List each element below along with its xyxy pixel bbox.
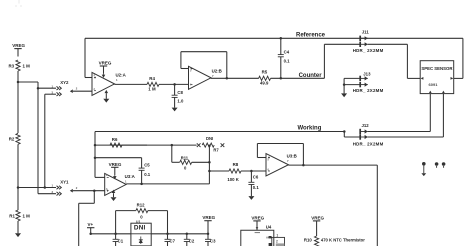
wire	[122, 144, 197, 146]
power VREG (R3 top)	[12, 43, 25, 56]
resistor R5	[259, 70, 271, 86]
op-amp U2:A	[92, 72, 127, 95]
wire	[211, 77, 259, 79]
svg-text:U4: U4	[266, 225, 272, 230]
wire U2:B feedback	[181, 52, 227, 79]
svg-text:U3:A: U3:A	[125, 174, 136, 179]
wire	[159, 83, 189, 85]
svg-text:XY2: XY2	[60, 80, 69, 85]
capacitor C1	[113, 234, 124, 246]
svg-text:R5: R5	[262, 70, 268, 75]
resistor R7 DNI	[197, 136, 225, 152]
wire Reference net	[85, 38, 463, 77]
wire	[95, 132, 105, 178]
wire	[192, 161, 210, 163]
ground	[111, 197, 117, 201]
svg-text:C4: C4	[284, 50, 290, 55]
svg-text:HDR_ 2X2MM: HDR_ 2X2MM	[353, 48, 384, 53]
resistor R2	[9, 133, 20, 144]
wire	[38, 88, 56, 194]
svg-text:0.1: 0.1	[284, 58, 291, 63]
op-amp U3:A	[105, 173, 136, 195]
wire	[17, 188, 19, 211]
power VREG (U2:A)	[99, 61, 112, 74]
connector J13	[353, 71, 384, 93]
IC U4	[241, 225, 285, 246]
wire XY2 pin1	[38, 87, 56, 89]
svg-text:C7: C7	[170, 239, 176, 244]
power VREG (rail)	[202, 215, 215, 234]
svg-text:100 K: 100 K	[227, 177, 239, 182]
resistor R8	[227, 162, 241, 182]
svg-text:J13: J13	[363, 71, 371, 76]
svg-text:HDR_ 2X2MM: HDR_ 2X2MM	[353, 88, 384, 93]
svg-text:J12: J12	[362, 123, 370, 128]
wire	[95, 144, 147, 146]
svg-text:49.9: 49.9	[260, 81, 269, 86]
svg-text:C8: C8	[177, 90, 183, 95]
svg-text:C3: C3	[210, 239, 216, 244]
wire	[16, 0, 21, 7]
power VREG (R10)	[311, 215, 324, 236]
capacitor C8	[172, 84, 184, 107]
svg-text:470 K NTC Thermistor: 470 K NTC Thermistor	[321, 238, 365, 243]
svg-text:R1: R1	[9, 214, 15, 219]
svg-text:R11: R11	[181, 156, 189, 161]
node Working label	[298, 126, 322, 132]
wire V+ rail	[89, 233, 208, 236]
wire	[126, 183, 209, 185]
svg-text:VREG: VREG	[12, 43, 25, 48]
node	[280, 77, 283, 80]
svg-text:1 M: 1 M	[23, 214, 31, 219]
svg-text:R3: R3	[9, 63, 15, 68]
resistor R12	[116, 203, 168, 234]
wire	[241, 170, 266, 172]
wire	[343, 78, 360, 93]
svg-text:VREG: VREG	[99, 61, 112, 66]
sensor SPEC SENSOR	[420, 61, 454, 94]
power VREG (U3:A)	[109, 162, 122, 175]
svg-text:R12: R12	[137, 203, 145, 208]
wire	[18, 82, 38, 88]
wire	[376, 165, 378, 246]
node	[94, 144, 97, 159]
svg-text:Counter: Counter	[299, 73, 323, 79]
ground	[248, 196, 254, 200]
svg-text:R2: R2	[9, 137, 15, 142]
wire Working net	[95, 131, 344, 133]
wire	[17, 221, 19, 233]
wire	[17, 82, 19, 133]
svg-text:VREG: VREG	[311, 215, 324, 220]
svg-text:VREG: VREG	[109, 162, 122, 167]
capacitor C5	[95, 158, 151, 184]
wire	[113, 193, 115, 197]
connector J11	[353, 30, 384, 53]
capacitor C6	[248, 171, 259, 196]
svg-text:DNI: DNI	[134, 224, 146, 231]
power V+	[87, 222, 94, 234]
node Counter label	[299, 73, 323, 79]
svg-text:1 M: 1 M	[148, 87, 156, 92]
wire	[115, 83, 148, 85]
node	[17, 81, 20, 84]
svg-text:R7: R7	[213, 147, 219, 152]
wire	[105, 94, 107, 99]
svg-text:VREG: VREG	[251, 215, 264, 220]
wire XY1 pin1	[18, 186, 56, 189]
node	[208, 161, 211, 164]
svg-text:HDR_ 2X2MM: HDR_ 2X2MM	[353, 141, 384, 146]
svg-text:0.1: 0.1	[144, 172, 151, 177]
connector J12	[353, 123, 384, 146]
svg-text:Reference: Reference	[296, 33, 326, 39]
wire Counter net	[271, 44, 361, 78]
svg-text:SPEC SENSOR: SPEC SENSOR	[421, 66, 453, 71]
svg-text:C2: C2	[189, 239, 195, 244]
svg-text:A0: A0	[266, 235, 270, 239]
wire	[208, 145, 211, 184]
node	[114, 233, 209, 236]
svg-text:R4: R4	[149, 76, 155, 81]
svg-text:U3:B: U3:B	[287, 153, 297, 158]
svg-text:V+: V+	[88, 222, 94, 227]
wire	[454, 38, 463, 78]
svg-text:J11: J11	[362, 30, 370, 35]
op-amp U3:B	[266, 153, 297, 176]
node	[280, 37, 283, 40]
svg-text:R8: R8	[233, 162, 239, 167]
capacitor C2	[184, 234, 195, 246]
test point TP2	[435, 162, 439, 168]
svg-text:DNI: DNI	[206, 136, 213, 141]
capacitor C4	[278, 38, 290, 78]
thermistor R10	[304, 236, 365, 246]
test point TP3	[442, 162, 446, 168]
svg-text:U2:B: U2:B	[212, 69, 222, 74]
node	[17, 186, 20, 189]
resistor R6	[110, 137, 122, 147]
wire	[45, 94, 56, 187]
node	[140, 183, 143, 186]
resistor R4	[147, 76, 159, 91]
svg-text:0.1: 0.1	[253, 185, 260, 190]
svg-text:Working: Working	[298, 126, 322, 132]
svg-text:R6: R6	[112, 137, 118, 142]
op-amp U2:B	[189, 66, 222, 89]
svg-text:1: 1	[276, 234, 278, 238]
svg-text:XY1: XY1	[60, 180, 69, 185]
resistor R11	[180, 156, 192, 171]
svg-text:C1: C1	[118, 239, 124, 244]
svg-text:VREG: VREG	[202, 215, 215, 220]
svg-text:6091: 6091	[429, 82, 439, 87]
IC U1 DNI	[131, 220, 151, 246]
wire	[289, 164, 378, 167]
wire U3:B feedback	[257, 144, 303, 166]
svg-text:1 M: 1 M	[23, 63, 31, 68]
svg-text:C5: C5	[144, 162, 150, 167]
jumper XY1	[52, 180, 105, 246]
wire	[344, 132, 360, 138]
svg-text:2: 2	[276, 240, 278, 244]
node	[343, 130, 346, 133]
jumper XY2	[52, 80, 93, 96]
capacitor C7	[165, 234, 176, 246]
node	[173, 83, 176, 86]
resistor R3	[9, 60, 31, 71]
node	[171, 144, 174, 147]
wire	[209, 170, 229, 172]
svg-text:C6: C6	[253, 175, 259, 180]
wire	[368, 94, 444, 137]
node	[37, 87, 40, 90]
svg-text:R10: R10	[304, 238, 312, 243]
svg-text:1.0: 1.0	[177, 98, 184, 103]
wire	[17, 71, 19, 82]
ground	[15, 233, 21, 237]
ground	[103, 99, 109, 103]
svg-text:U2:A: U2:A	[116, 73, 127, 78]
test point TP1	[421, 162, 426, 176]
power VREG (U4)	[251, 215, 264, 230]
capacitor C3	[205, 234, 216, 246]
wire	[368, 44, 420, 78]
resistor R1	[9, 210, 30, 221]
ground	[341, 93, 347, 97]
node	[226, 77, 229, 80]
node Reference label	[296, 33, 326, 39]
wire	[17, 144, 19, 187]
wire	[172, 145, 180, 162]
ground	[172, 108, 178, 112]
wire	[368, 94, 431, 132]
node	[250, 170, 253, 173]
